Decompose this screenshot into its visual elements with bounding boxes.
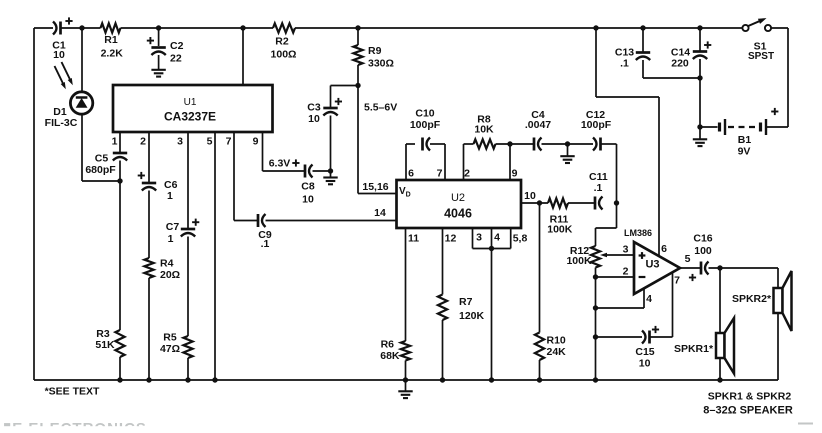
- svg-text:5: 5: [685, 253, 691, 265]
- svg-text:.1: .1: [261, 238, 270, 250]
- svg-text:C2: C2: [170, 40, 184, 52]
- wire C13 to C14 bottom: [643, 77, 700, 79]
- capacitor C13: [615, 28, 650, 78]
- pin 7 label U2: [437, 168, 443, 180]
- wire U1 pin9 down: [263, 132, 306, 171]
- svg-text:R2: R2: [275, 36, 289, 48]
- wire U3 pin2: [593, 274, 634, 279]
- svg-text:C10: C10: [415, 108, 434, 120]
- wire C3 to ground node: [330, 116, 332, 172]
- note speakers line2: [703, 405, 793, 417]
- ground (main rail): [398, 380, 412, 398]
- svg-text:C5: C5: [95, 153, 109, 165]
- pin 5 label: [207, 136, 213, 148]
- wire node P down: [699, 78, 701, 127]
- capacitor C12: [581, 109, 612, 151]
- pin 9 label: [253, 136, 259, 148]
- svg-text:SPKR2*: SPKR2*: [732, 293, 772, 305]
- wire to SPKR2: [777, 268, 779, 380]
- svg-text:100pF: 100pF: [581, 119, 612, 131]
- svg-text:20Ω: 20Ω: [160, 269, 180, 281]
- capacitor C7: [166, 219, 200, 245]
- resistor R11: [547, 198, 573, 235]
- switch S1: [742, 18, 774, 62]
- op-amp U1 CA3237E box: [113, 85, 273, 132]
- wire U1 pin3 to C7: [187, 132, 189, 229]
- node H (D1/C5/pin1): [117, 178, 122, 183]
- svg-text:3: 3: [623, 244, 629, 256]
- svg-text:R9: R9: [368, 45, 382, 57]
- capacitor C2: [147, 28, 184, 70]
- svg-text:C7: C7: [166, 221, 180, 233]
- svg-text:5: 5: [207, 136, 213, 148]
- wire C7 to R5: [187, 237, 189, 337]
- node C (U1 top feed): [240, 25, 245, 30]
- capacitor C11: [589, 171, 608, 210]
- wire C1 to R1: [61, 27, 101, 29]
- label 6.3V: [269, 158, 300, 170]
- resistor R2: [271, 23, 297, 60]
- resistor R9: [353, 28, 394, 86]
- capacitor C1: [52, 17, 72, 61]
- svg-text:R10: R10: [547, 335, 566, 347]
- svg-text:7: 7: [437, 168, 443, 180]
- svg-text:10: 10: [524, 190, 536, 202]
- svg-text:R4: R4: [160, 258, 174, 270]
- svg-text:SPKR1*: SPKR1*: [674, 343, 714, 355]
- pin 14 label: [374, 207, 386, 219]
- wire to SPKR1: [717, 268, 722, 383]
- capacitor C8: [301, 165, 315, 206]
- pin 3 label: [177, 136, 183, 148]
- capacitor C10: [410, 108, 441, 151]
- wire U2 pins 3,4,5-8 join: [473, 228, 511, 249]
- pin 6 label U2: [408, 168, 414, 180]
- svg-text:330Ω: 330Ω: [368, 58, 394, 70]
- svg-text:4046: 4046: [444, 207, 472, 221]
- wire bottom rail: [34, 379, 778, 381]
- wire R3 to bottom rail: [117, 357, 122, 383]
- svg-text:*SEE TEXT: *SEE TEXT: [45, 386, 100, 398]
- node P (C14 bottom): [697, 75, 702, 80]
- svg-text:5,8: 5,8: [513, 233, 528, 245]
- svg-text:51K: 51K: [95, 339, 115, 351]
- resistor R8: [474, 114, 496, 149]
- resistor R5: [160, 332, 193, 359]
- wire R12 bottom to rail: [593, 268, 598, 383]
- pin 3 label U3: [623, 244, 629, 256]
- svg-text:10: 10: [53, 49, 65, 61]
- svg-text:9: 9: [512, 168, 518, 180]
- capacitor C5: [85, 153, 127, 177]
- IC U2 4046 box: [397, 180, 522, 228]
- pin 1 label: [112, 136, 118, 148]
- wire C16 to speakers: [709, 265, 779, 270]
- svg-text:100: 100: [694, 245, 712, 257]
- pin 11 label U2: [408, 233, 419, 245]
- wire D1 to C5 junction: [82, 114, 120, 182]
- svg-text:C3: C3: [307, 102, 321, 114]
- svg-text:100pF: 100pF: [410, 119, 441, 131]
- svg-text:C16: C16: [693, 233, 712, 245]
- node D (R9 top): [355, 25, 360, 30]
- op-amp U3 LM386: [624, 228, 680, 294]
- capacitor C16: [689, 233, 713, 282]
- node J (C3 tap / 5.5-6V): [355, 83, 360, 88]
- wire C9 to U2 pin14: [266, 220, 397, 222]
- pin 2 label U3: [623, 266, 629, 278]
- svg-text:1: 1: [112, 136, 118, 148]
- svg-text:FIL-3C: FIL-3C: [45, 117, 78, 129]
- svg-text:4: 4: [646, 293, 652, 305]
- node K (R8/C4/pin9): [507, 141, 512, 146]
- svg-text:22: 22: [170, 53, 182, 65]
- pin 5 label U3: [685, 253, 691, 265]
- node F (C13 top): [640, 25, 645, 30]
- wire U1 pin7 down: [234, 132, 258, 221]
- svg-text:68K: 68K: [380, 350, 400, 362]
- wire node L to C12: [568, 143, 594, 145]
- svg-text:.1: .1: [620, 58, 629, 70]
- wire left rail: [33, 28, 35, 380]
- pin 7 label: [226, 136, 232, 148]
- light arrow 2: [62, 62, 73, 85]
- svg-text:680pF: 680pF: [85, 164, 116, 176]
- node M (pin10/R10): [537, 200, 542, 205]
- svg-text:2: 2: [623, 266, 629, 278]
- wire C15 to R12 line: [593, 334, 642, 339]
- wire U2 pin12 to R7: [442, 228, 444, 295]
- svg-text:3: 3: [476, 232, 482, 244]
- svg-text:10: 10: [308, 113, 320, 125]
- ground (battery): [693, 127, 707, 146]
- svg-text:1: 1: [167, 190, 173, 202]
- svg-text:10: 10: [302, 194, 314, 206]
- svg-text:.0047: .0047: [525, 119, 551, 131]
- svg-text:12: 12: [445, 233, 457, 245]
- svg-text:4: 4: [494, 232, 500, 244]
- wire R11 to C11: [568, 202, 595, 204]
- svg-text:R1: R1: [104, 34, 118, 46]
- capacitor C4: [525, 109, 551, 151]
- resistor R12: [566, 245, 600, 268]
- svg-text:1: 1: [168, 233, 174, 245]
- resistor R1: [101, 23, 124, 59]
- wire R4 to bottom rail: [146, 278, 151, 383]
- svg-text:8–32Ω SPEAKER: 8–32Ω SPEAKER: [703, 405, 793, 417]
- wire U1 pin5 to bottom rail: [212, 132, 217, 383]
- wire pin2 riser: [464, 144, 474, 180]
- node N (C11/C12/R12): [614, 200, 619, 205]
- wire C11 node to R12: [596, 203, 617, 246]
- svg-text:47Ω: 47Ω: [160, 343, 180, 355]
- wire R10 to bottom rail: [537, 360, 542, 383]
- wire U3 pin4: [593, 289, 644, 311]
- svg-text:5.5–6V: 5.5–6V: [364, 102, 397, 114]
- svg-text:6: 6: [408, 168, 414, 180]
- resistor R7: [438, 295, 485, 323]
- wire R9 to U2 Vdd: [358, 86, 397, 194]
- resistor R6: [380, 339, 410, 363]
- pin 5,8 label U2: [513, 233, 528, 245]
- svg-text:100Ω: 100Ω: [271, 49, 297, 61]
- svg-text:B1: B1: [738, 134, 752, 146]
- capacitor C14: [671, 28, 711, 78]
- pin 12 label U2: [445, 233, 457, 245]
- svg-text:100K: 100K: [547, 224, 573, 236]
- svg-text:10: 10: [639, 358, 651, 370]
- svg-text:SPST: SPST: [748, 51, 774, 62]
- svg-text:2: 2: [464, 168, 470, 180]
- svg-text:6: 6: [661, 243, 667, 255]
- ground (C4/C12): [560, 144, 574, 163]
- node A (C1/R1/D1 junction): [79, 25, 84, 30]
- node G (C14 top): [697, 25, 702, 30]
- wiper arrow R12: [600, 253, 634, 258]
- capacitor C6: [138, 172, 178, 202]
- wire C6 to R4: [148, 191, 150, 259]
- wire C10 to pin7: [430, 144, 445, 180]
- svg-text:6.3V: 6.3V: [269, 158, 291, 170]
- wire U2 pin11 to R6: [405, 228, 407, 341]
- svg-text:120K: 120K: [459, 310, 485, 322]
- pin 3 label U2: [476, 232, 482, 244]
- svg-text:2: 2: [140, 136, 146, 148]
- node I (C3/C8/ground): [328, 168, 333, 173]
- capacitor C9: [258, 214, 272, 250]
- svg-text:R6: R6: [381, 339, 395, 351]
- svg-text:10K: 10K: [474, 124, 494, 136]
- pin 10 label U2: [524, 190, 536, 202]
- svg-text:9: 9: [253, 136, 259, 148]
- capacitor C3: [307, 98, 342, 125]
- pin 4 label U2: [494, 232, 500, 244]
- svg-text:14: 14: [374, 207, 386, 219]
- wire C4 to node L: [542, 143, 568, 145]
- light arrow 1: [55, 66, 66, 89]
- wire pin6 riser: [406, 144, 415, 180]
- svg-text:11: 11: [408, 233, 419, 245]
- wire R1 to R2: [121, 27, 274, 29]
- wire pin9 riser: [509, 144, 511, 180]
- svg-text:3: 3: [177, 136, 183, 148]
- svg-text:U1: U1: [184, 97, 197, 108]
- svg-text:R5: R5: [163, 332, 177, 344]
- wire C8 to ground node: [313, 170, 331, 172]
- svg-text:SPKR1 & SPKR2: SPKR1 & SPKR2: [708, 391, 792, 403]
- node Q (battery minus / ground): [697, 124, 702, 129]
- node E (U3 supply tap): [593, 25, 598, 30]
- pin 6 label U3: [661, 243, 667, 255]
- resistor R4: [144, 258, 180, 282]
- svg-text:220: 220: [671, 58, 689, 70]
- capacitor C15: [635, 326, 659, 370]
- wire U3 pin7 to C15: [650, 273, 673, 338]
- speaker SPKR2: [732, 271, 792, 331]
- svg-text:2.2K: 2.2K: [101, 48, 124, 60]
- svg-text:15,16: 15,16: [362, 181, 388, 193]
- wire node J to C3: [331, 86, 359, 109]
- node L (C4/C12/ground): [565, 141, 570, 146]
- pin 2 label: [140, 136, 146, 148]
- wire U3 pin5 out: [680, 267, 700, 269]
- pin 7 label U3: [674, 275, 680, 287]
- resistor R10: [535, 333, 566, 361]
- svg-text:LM386: LM386: [624, 228, 652, 238]
- wire U2 pin10: [521, 202, 548, 204]
- wire R8 to node K: [496, 143, 534, 145]
- node B (C2 tap): [156, 25, 161, 30]
- label pins 15,16: [362, 181, 388, 193]
- wire R5 to bottom rail: [185, 358, 190, 383]
- svg-text:7: 7: [226, 136, 232, 148]
- svg-text:R7: R7: [459, 296, 473, 308]
- svg-text:.1: .1: [594, 182, 603, 194]
- svg-text:24K: 24K: [547, 346, 567, 358]
- wire node M to R10: [539, 203, 541, 333]
- svg-text:U2: U2: [451, 192, 465, 204]
- svg-text:9V: 9V: [738, 146, 751, 158]
- photodiode D1: [45, 92, 93, 129]
- wire U1 pin2 to C6: [148, 132, 150, 183]
- svg-text:7: 7: [674, 275, 680, 287]
- svg-text:C8: C8: [301, 181, 315, 193]
- wire C5 to R3: [119, 161, 121, 331]
- label 5.5-6V: [364, 102, 397, 114]
- svg-text:CA3237E: CA3237E: [164, 110, 216, 124]
- svg-text:C15: C15: [635, 346, 654, 358]
- wire top rail to U1: [242, 28, 244, 85]
- wire supply to U3 pin6: [596, 28, 659, 256]
- ground (C8/C3): [323, 171, 337, 184]
- pin 9 label U2: [512, 168, 518, 180]
- svg-text:100K: 100K: [566, 255, 592, 267]
- ground (C2): [151, 70, 165, 77]
- speaker SPKR1: [674, 318, 734, 374]
- resistor R3: [95, 328, 124, 357]
- wire S1 to battery plus: [767, 28, 789, 127]
- wire top rail to D1: [81, 28, 83, 92]
- note see-text: [45, 386, 100, 398]
- pin 2 label U2: [464, 168, 470, 180]
- node O (pins 3/4 join): [489, 246, 494, 251]
- battery B1: [700, 108, 778, 158]
- note speakers line1: [708, 391, 792, 403]
- wire R6 to bottom rail: [403, 361, 408, 383]
- wire node O to bottom rail: [489, 249, 494, 383]
- wire top rail left segment: [34, 27, 53, 29]
- wire U1 pin1 to C5: [119, 132, 121, 153]
- wire R2 to S1: [295, 27, 743, 29]
- svg-text:U3: U3: [645, 259, 659, 271]
- wire R7 to bottom rail: [440, 320, 445, 383]
- pin 4 label U3: [646, 293, 652, 305]
- wire C12 to C11 node: [601, 144, 617, 203]
